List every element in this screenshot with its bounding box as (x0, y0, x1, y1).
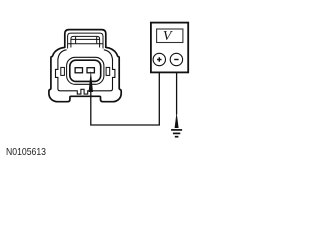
svg-text:V: V (163, 29, 173, 44)
